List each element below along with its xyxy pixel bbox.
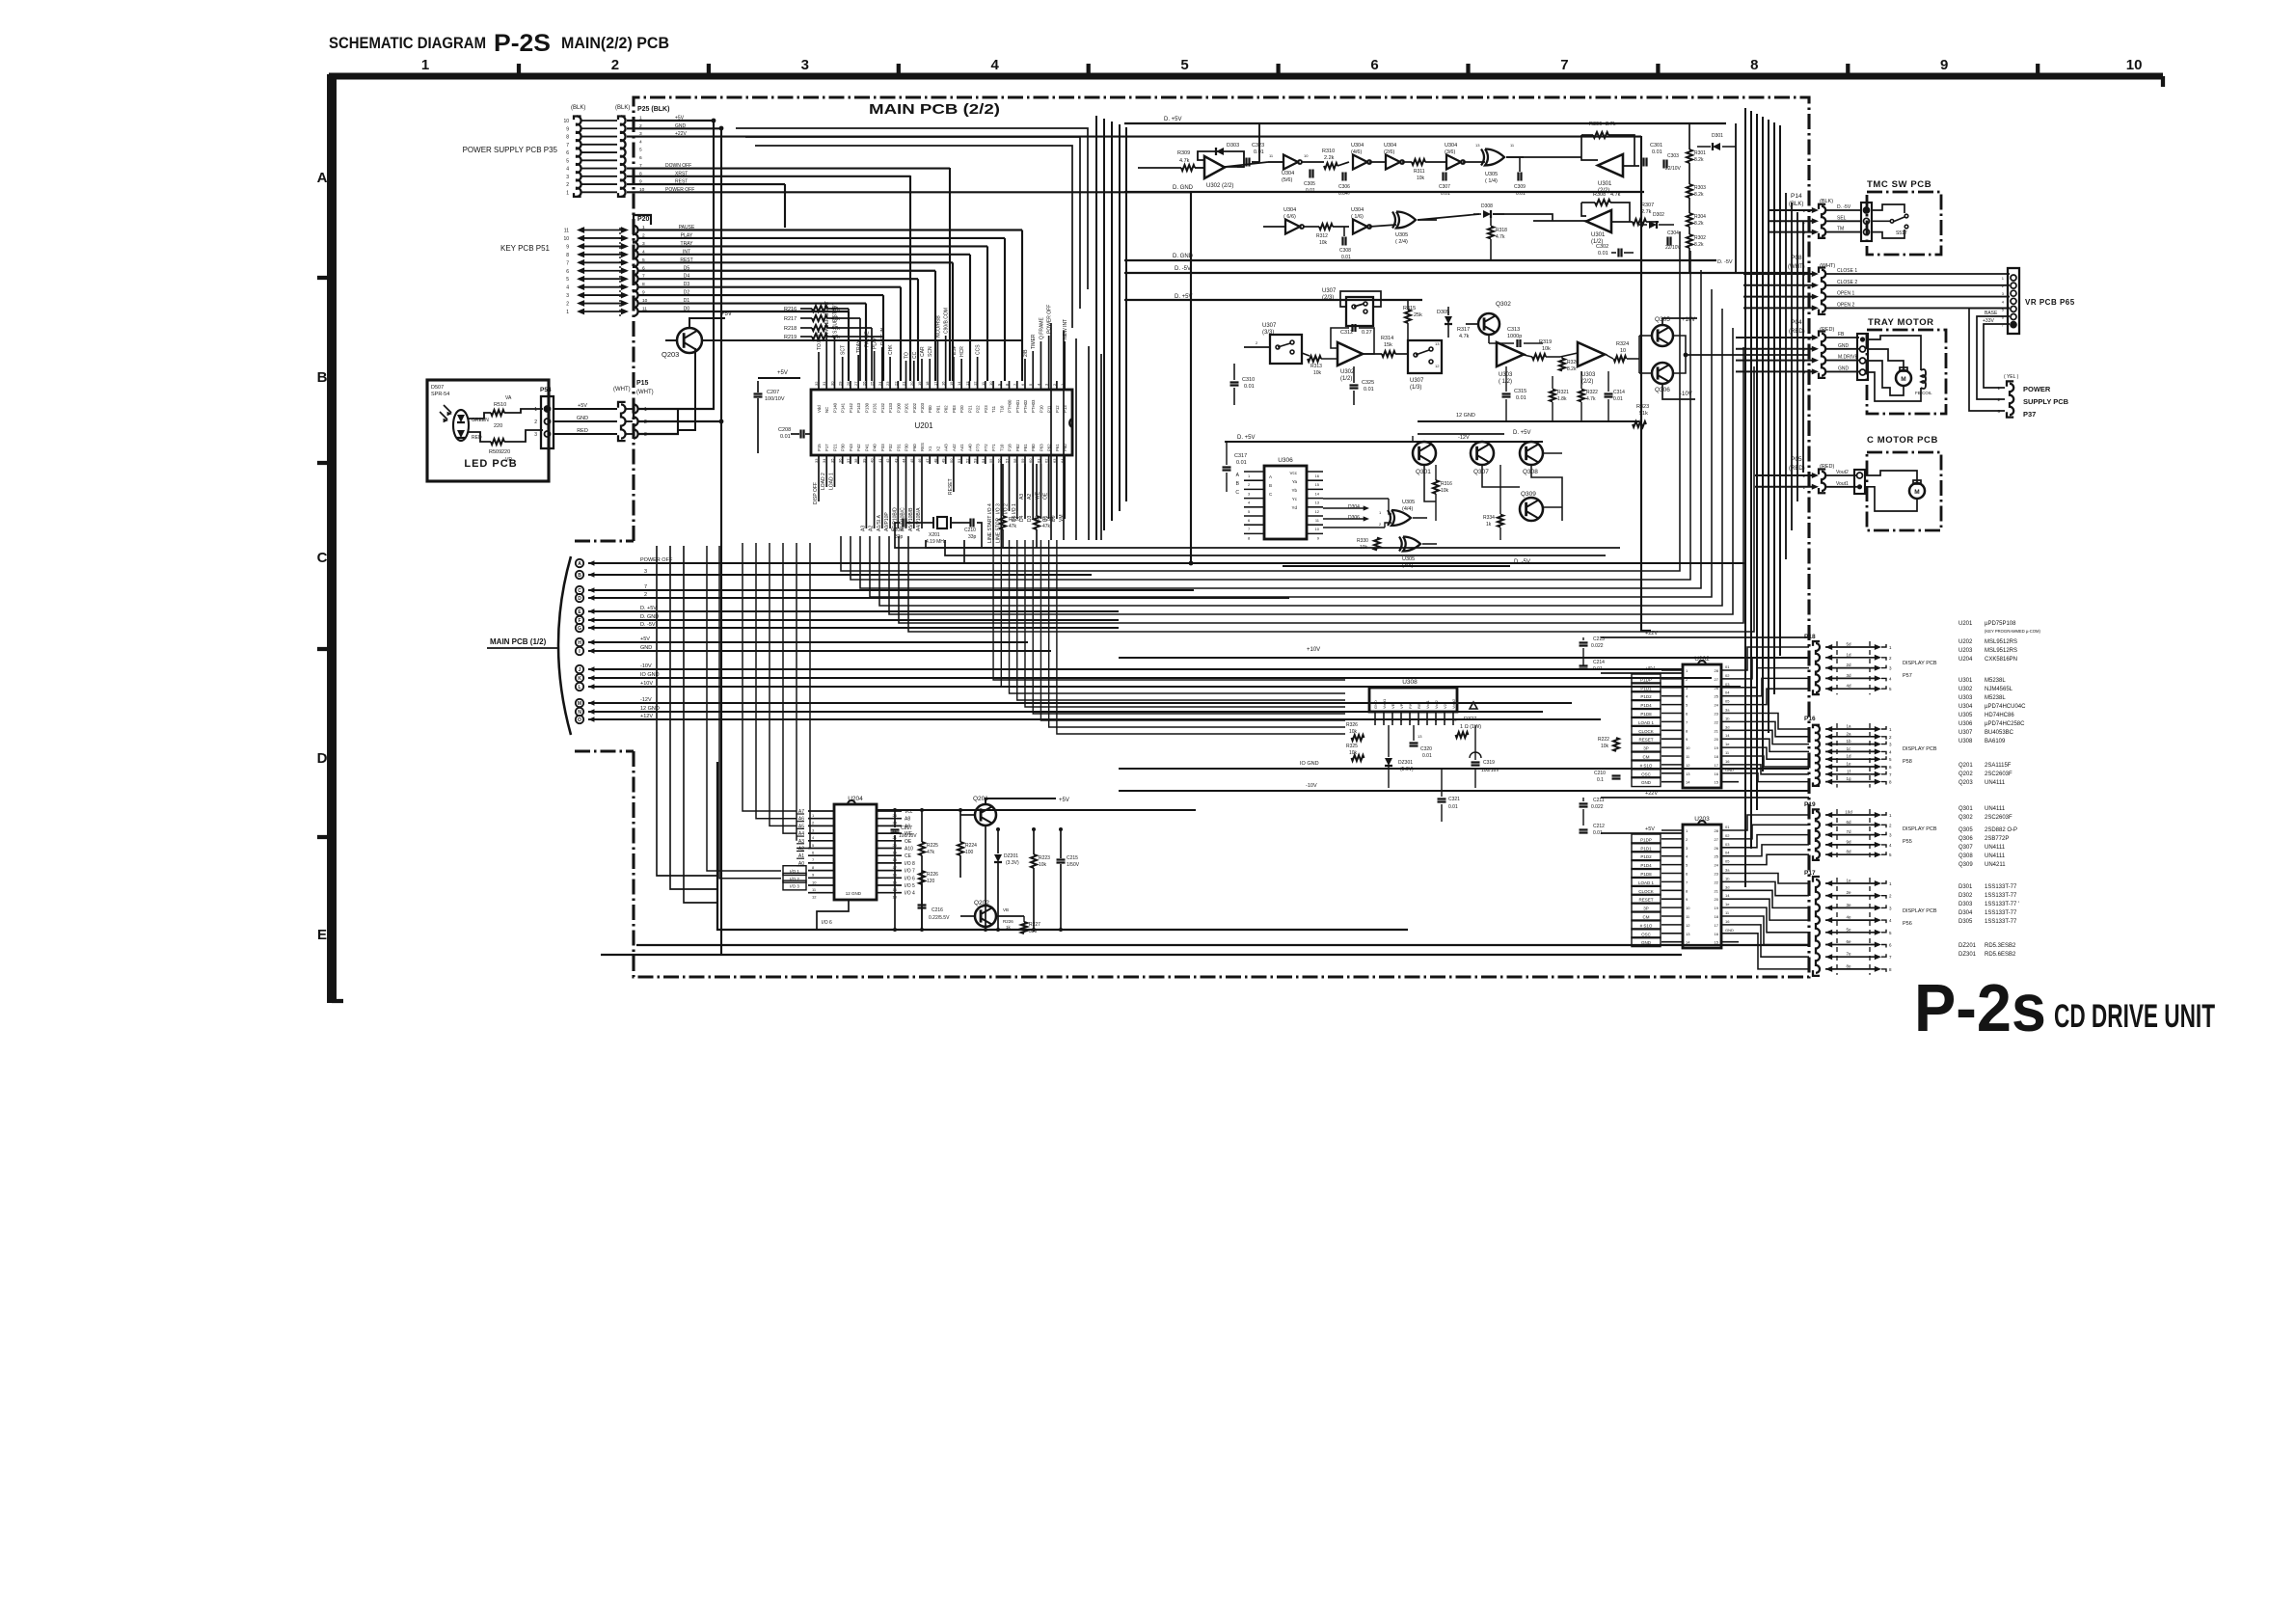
svg-text:1SS133T-77: 1SS133T-77	[1985, 919, 2017, 925]
svg-text:8: 8	[566, 135, 569, 141]
wire P17-3 3e	[1825, 905, 1832, 910]
svg-text:9: 9	[566, 126, 569, 132]
svg-text:P1D1: P1D1	[1640, 686, 1652, 690]
wire P16-1 1a	[1825, 726, 1832, 732]
svg-text:32: 32	[814, 381, 819, 386]
svg-text:1b: 1b	[1846, 739, 1851, 744]
wires U203 to P19 P17	[1739, 815, 1809, 830]
svg-text:(5.6V): (5.6V)	[1400, 767, 1414, 772]
capacitor C210 33p	[969, 519, 971, 528]
transistor Q201	[975, 804, 996, 826]
resistor R302 8.2k	[1687, 234, 1692, 248]
svg-text:10: 10	[563, 119, 569, 124]
svg-text:P1DP: P1DP	[1640, 837, 1652, 842]
svg-text:0.022: 0.022	[1591, 804, 1604, 810]
svg-text:10: 10	[1686, 745, 1690, 750]
resistor R226 120	[919, 871, 925, 884]
svg-text:24: 24	[878, 381, 882, 386]
svg-text:0.01: 0.01	[1244, 384, 1255, 390]
svg-text:D. -5V: D. -5V	[1514, 559, 1530, 565]
svg-text:Q302: Q302	[1958, 815, 1973, 821]
svg-text:R307: R307	[1641, 203, 1654, 208]
svg-text:42: 42	[885, 458, 890, 463]
svg-text:T11: T11	[991, 405, 996, 413]
svg-text:P80: P80	[1031, 444, 1036, 451]
resistor R318 4.7k	[1488, 227, 1494, 239]
svg-text:U307: U307	[1262, 323, 1277, 329]
svg-text:45: 45	[909, 458, 914, 463]
svg-text:R324: R324	[1616, 341, 1629, 347]
svg-text:UN4111: UN4111	[1985, 845, 2006, 851]
node K (IO GND)	[576, 674, 583, 682]
svg-text:17: 17	[1715, 763, 1719, 768]
wire U302 output to inverter chain	[1225, 162, 1268, 167]
svg-text:7e: 7e	[1846, 952, 1851, 957]
svg-text:P40: P40	[873, 444, 878, 451]
svg-text:33: 33	[814, 458, 819, 463]
svg-text:36: 36	[838, 458, 843, 463]
capacitor C303 22/10V	[1662, 160, 1664, 169]
svg-text:27: 27	[853, 381, 858, 386]
svg-text:U306: U306	[1958, 721, 1973, 727]
svg-text:GND: GND	[640, 645, 652, 651]
svg-text:27: 27	[1715, 677, 1719, 682]
svg-text:M5238L: M5238L	[1985, 678, 2006, 684]
svg-text:RED: RED	[577, 428, 588, 434]
svg-text:C314: C314	[1613, 390, 1625, 395]
svg-text:P101: P101	[905, 402, 909, 413]
svg-text:P15: P15	[817, 444, 822, 451]
svg-text:Vcc1: Vcc1	[1425, 699, 1430, 709]
svg-text:20: 20	[1715, 897, 1719, 902]
svg-text:PTH01: PTH01	[1015, 399, 1020, 413]
svg-text:1b: 1b	[1725, 876, 1730, 880]
c motor wires	[1865, 471, 1917, 482]
svg-text:12: 12	[1435, 364, 1440, 368]
svg-text:25k: 25k	[1414, 312, 1422, 318]
wire P17-8 8e	[1825, 966, 1832, 972]
svg-text:U304: U304	[1445, 143, 1457, 149]
svg-text:B: B	[317, 369, 328, 386]
svg-text:3: 3	[534, 432, 537, 438]
svg-text:MSL9512RS: MSL9512RS	[1985, 639, 2017, 645]
svg-text:CAR: CAR	[920, 346, 926, 357]
svg-text:CLOSE 1: CLOSE 1	[1837, 268, 1857, 274]
node D (2)	[576, 594, 583, 602]
svg-text:(3.3V): (3.3V)	[1006, 860, 1019, 866]
svg-text:OE: OE	[905, 839, 912, 845]
U201 top signal wires and rotated labels	[818, 352, 820, 381]
svg-text:U307: U307	[1958, 730, 1973, 736]
svg-text:P102: P102	[912, 402, 917, 413]
svg-text:I/O 3: I/O 3	[790, 883, 799, 888]
svg-text:0.01: 0.01	[1598, 251, 1608, 257]
svg-text:19: 19	[1715, 745, 1719, 750]
svg-text:NC: NC	[824, 407, 829, 413]
svg-text:U307: U307	[1410, 378, 1424, 384]
svg-text:RESET: RESET	[948, 478, 954, 495]
wire P18-1 5d	[1825, 644, 1832, 650]
left frame bar with row letters A-E	[327, 74, 337, 1003]
svg-text:RESET: RESET	[1638, 898, 1653, 903]
svg-text:12 GND: 12 GND	[846, 891, 862, 896]
svg-text:T10: T10	[999, 405, 1004, 413]
inverter U304 (6/6)	[1285, 220, 1300, 234]
transistor Q307	[1471, 442, 1494, 465]
transistor Q203	[677, 328, 702, 353]
svg-text:13: 13	[1475, 143, 1480, 148]
svg-text:( 6/6): ( 6/6)	[1283, 214, 1296, 220]
svg-text:P103: P103	[920, 402, 925, 413]
wire P16-6 1e	[1825, 764, 1832, 770]
svg-text:7: 7	[1560, 57, 1568, 73]
svg-text:6: 6	[566, 269, 569, 275]
svg-text:61: 61	[1036, 458, 1040, 463]
svg-text:U201: U201	[1958, 621, 1973, 627]
svg-text:D. -5V: D. -5V	[1175, 266, 1191, 272]
svg-text:18: 18	[925, 381, 930, 386]
svg-text:47k: 47k	[831, 335, 840, 340]
svg-text:D. +5V: D. +5V	[1164, 117, 1182, 122]
svg-text:14: 14	[957, 381, 961, 386]
svg-text:P21: P21	[832, 444, 837, 451]
svg-text:D: D	[578, 596, 581, 602]
svg-text:1.8k: 1.8k	[1557, 396, 1567, 402]
svg-text:C304: C304	[1667, 230, 1679, 236]
svg-text:28: 28	[846, 381, 851, 386]
svg-text:4.19 MHz: 4.19 MHz	[926, 539, 947, 545]
capacitor C307 0.01	[1442, 173, 1444, 181]
svg-text:Q301: Q301	[1416, 469, 1431, 475]
svg-text:0.1: 0.1	[1597, 777, 1604, 783]
svg-text:ESP: ESP	[952, 344, 958, 355]
svg-text:2e: 2e	[1846, 890, 1851, 895]
svg-text:2: 2	[644, 592, 647, 598]
right network frame wires	[1688, 123, 1690, 149]
svg-text:A43: A43	[944, 444, 949, 451]
svg-text:(RED): (RED)	[1789, 329, 1805, 335]
resistor R304 8.2k	[1687, 213, 1692, 227]
op-amp U301 (2/2) reversed	[1598, 154, 1623, 176]
svg-text:U204: U204	[848, 796, 863, 802]
svg-text:C212: C212	[1593, 824, 1605, 829]
svg-text:6d: 6d	[1846, 820, 1851, 825]
svg-text:K: K	[578, 676, 581, 682]
svg-text:GND: GND	[1838, 365, 1850, 371]
svg-text:R220: R220	[1009, 517, 1020, 523]
svg-text:0.01: 0.01	[1364, 387, 1374, 392]
svg-text:8: 8	[566, 253, 569, 258]
svg-text:5d: 5d	[1846, 642, 1851, 647]
svg-text:Q308: Q308	[1523, 469, 1538, 475]
svg-text:R308: R308	[1593, 192, 1606, 198]
svg-text:P1D2: P1D2	[1640, 854, 1652, 859]
svg-text:LOAD 1: LOAD 1	[828, 473, 834, 490]
svg-text:P15: P15	[636, 380, 649, 387]
svg-text:PLAY: PLAY	[873, 337, 878, 349]
svg-text:21: 21	[1715, 728, 1719, 733]
svg-text:Vout2: Vout2	[1836, 470, 1849, 475]
svg-text:1k: 1k	[1486, 522, 1492, 528]
svg-text:C305: C305	[1304, 181, 1315, 187]
svg-text:C208: C208	[778, 427, 791, 433]
svg-text:Vcc2: Vcc2	[1434, 699, 1439, 709]
svg-text:3: 3	[644, 569, 647, 575]
svg-text:10: 10	[563, 236, 569, 242]
svg-text:26: 26	[861, 381, 866, 386]
svg-text:P57: P57	[1903, 673, 1912, 679]
op-amp U303 (2/2)	[1578, 342, 1605, 366]
svg-text:CLOCK: CLOCK	[1638, 889, 1654, 894]
upper nested bus rectangles	[736, 128, 1088, 289]
svg-text:C213: C213	[1593, 636, 1605, 642]
resistor R316 10k	[1433, 480, 1439, 494]
svg-text:( 2/4): ( 2/4)	[1395, 239, 1408, 245]
transistor Q308	[1520, 442, 1543, 465]
svg-text:U201: U201	[914, 421, 933, 430]
svg-text:C323: C323	[1252, 143, 1264, 149]
svg-text:1e: 1e	[1725, 902, 1730, 907]
svg-text:R314: R314	[1381, 336, 1393, 341]
svg-text:NJM4565L: NJM4565L	[1985, 687, 2013, 692]
wire P15-1 +5V	[638, 408, 678, 410]
svg-text:HCR: HCR	[959, 346, 965, 357]
svg-text:RESET: RESET	[1638, 738, 1653, 743]
svg-text:SCT: SCT	[841, 345, 847, 355]
svg-text:3d: 3d	[1846, 673, 1851, 678]
svg-text:+5V: +5V	[1645, 826, 1655, 832]
svg-text:VP: VP	[1399, 703, 1404, 709]
wires LED to P54	[469, 413, 491, 419]
inverter U304 (5/6)	[1283, 155, 1298, 170]
wire U301(1/2) output left	[1533, 220, 1586, 222]
svg-text:0.22/5.5V: 0.22/5.5V	[929, 915, 950, 921]
node M (-12V)	[576, 699, 583, 707]
inverter U304 (4/6)	[1353, 155, 1367, 170]
svg-text:P1D1: P1D1	[1640, 846, 1652, 851]
svg-text:R304: R304	[1694, 214, 1706, 220]
svg-text:3d: 3d	[1725, 884, 1729, 889]
svg-text:X2: X2	[935, 446, 940, 451]
node H (+5V)	[576, 638, 583, 646]
resistor R320 8.2k	[1559, 359, 1565, 371]
svg-text:2.7k: 2.7k	[1606, 122, 1616, 127]
svg-text:7: 7	[566, 143, 569, 149]
svg-text:20: 20	[909, 381, 914, 386]
svg-text:9: 9	[566, 244, 569, 250]
svg-text:C313: C313	[1507, 327, 1520, 333]
svg-text:4d: 4d	[1846, 684, 1851, 689]
svg-text:( 1/4): ( 1/4)	[1485, 178, 1498, 184]
svg-text:P33: P33	[880, 444, 885, 451]
svg-text:2d: 2d	[1846, 663, 1851, 667]
wire XRST drop	[909, 176, 911, 381]
svg-text:DZ201: DZ201	[1004, 853, 1018, 859]
svg-text:1e: 1e	[1846, 879, 1851, 883]
svg-text:P21: P21	[967, 405, 972, 413]
svg-text:40: 40	[870, 458, 875, 463]
svg-text:R318: R318	[1496, 228, 1507, 233]
svg-text:28: 28	[1715, 668, 1719, 673]
svg-text:PTH00: PTH00	[1008, 399, 1013, 413]
svg-text:U301: U301	[1598, 181, 1612, 187]
svg-text:47k: 47k	[1009, 524, 1017, 529]
svg-text:R225: R225	[927, 843, 938, 849]
svg-text:59: 59	[1020, 458, 1025, 463]
svg-text:D. -5V: D. -5V	[1717, 259, 1733, 265]
svg-text:9: 9	[1940, 57, 1948, 73]
svg-text:P56: P56	[1903, 921, 1912, 927]
xor gate U305 (2/4)	[1396, 212, 1416, 229]
svg-text:0.01: 0.01	[1422, 753, 1432, 759]
address bus staircase into U204	[743, 543, 797, 811]
svg-text:TO: TO	[905, 352, 910, 359]
svg-text:Q309: Q309	[1958, 862, 1973, 868]
svg-text:0.01: 0.01	[1441, 191, 1450, 197]
svg-text:R219: R219	[784, 335, 797, 340]
svg-text:P132: P132	[880, 402, 885, 413]
svg-text:14: 14	[1725, 893, 1730, 898]
center staircase bus wires	[841, 231, 1680, 571]
svg-text:U305: U305	[1395, 232, 1408, 238]
svg-text:46: 46	[917, 458, 922, 463]
node G (D. -5V)	[576, 624, 583, 632]
svg-text:Q202: Q202	[1958, 771, 1973, 777]
svg-text:A41: A41	[959, 444, 964, 451]
svg-text:U301: U301	[1958, 678, 1973, 684]
svg-text:C207: C207	[767, 390, 779, 395]
svg-text:I/O 3: I/O 3	[995, 503, 1001, 514]
wire P16-8 1g	[1825, 779, 1832, 785]
svg-text:1a: 1a	[1846, 724, 1851, 729]
bus loop wires lower-left	[657, 546, 717, 876]
svg-text:41: 41	[878, 458, 882, 463]
svg-text:4: 4	[991, 57, 1000, 73]
wire P16-7 1f	[1825, 771, 1832, 777]
svg-text:0.01: 0.01	[1652, 149, 1662, 155]
svg-text:GND: GND	[1725, 768, 1734, 772]
svg-text:HD74HC86: HD74HC86	[1985, 713, 2014, 718]
U201 top pins	[818, 381, 820, 390]
wire P19-5 8d	[1825, 852, 1832, 857]
svg-text:21: 21	[1715, 888, 1719, 893]
svg-text:6: 6	[639, 155, 642, 161]
svg-text:C214: C214	[1593, 660, 1605, 665]
Q301 Q307 Q308 wires	[1424, 465, 1436, 501]
svg-text:3e: 3e	[1846, 903, 1851, 907]
svg-text:12: 12	[812, 895, 817, 900]
svg-text:10: 10	[1304, 153, 1309, 158]
svg-text:U203: U203	[1694, 816, 1710, 823]
svg-text:8.2k: 8.2k	[1694, 242, 1704, 248]
svg-text:(WHT): (WHT)	[613, 387, 631, 392]
svg-text:(1/3): (1/3)	[1410, 385, 1421, 391]
resistor R311 10k	[1412, 159, 1425, 165]
svg-text:L: L	[578, 685, 581, 690]
svg-text:P61: P61	[1055, 444, 1060, 451]
svg-text:01: 01	[1725, 825, 1730, 829]
svg-text:# S1O: # S1O	[1640, 923, 1653, 928]
svg-text:A2: A2	[869, 526, 875, 531]
svg-text:D308: D308	[1481, 203, 1493, 209]
svg-text:29: 29	[838, 381, 843, 386]
resistor R510 220	[491, 410, 504, 416]
capacitor C215 1/50V	[1057, 858, 1066, 860]
svg-text:1SS133T-77: 1SS133T-77	[1985, 893, 2017, 899]
svg-text:U302: U302	[1958, 687, 1973, 692]
svg-text:P1D8: P1D8	[1640, 712, 1652, 717]
svg-text:µPD74HC258C: µPD74HC258C	[1985, 721, 2025, 727]
resistor R509 220	[491, 439, 504, 445]
wire +5V drop	[678, 121, 714, 409]
tray motor connector strip	[1857, 334, 1868, 380]
svg-text:P58: P58	[1903, 759, 1912, 765]
svg-text:14: 14	[1686, 780, 1690, 785]
svg-text:C312: C312	[1340, 330, 1353, 336]
svg-text:P133: P133	[888, 402, 893, 413]
svg-text:13: 13	[1435, 341, 1440, 346]
svg-text:R325: R325	[1346, 744, 1358, 749]
svg-text:3P: 3P	[1643, 746, 1649, 751]
svg-text:P54: P54	[540, 387, 552, 393]
svg-text:FB: FB	[1838, 332, 1845, 338]
svg-text:27: 27	[1715, 837, 1719, 842]
svg-text:0.022: 0.022	[1591, 643, 1604, 649]
svg-text:13: 13	[1686, 932, 1690, 936]
svg-text:S517: S517	[1896, 230, 1907, 236]
svg-text:1c: 1c	[1847, 746, 1852, 751]
svg-text:5e: 5e	[1846, 927, 1851, 932]
svg-text:P1D8: P1D8	[1640, 872, 1652, 877]
svg-text:( 1/2): ( 1/2)	[1499, 379, 1512, 385]
svg-text:CC: CC	[912, 351, 918, 359]
svg-text:R302: R302	[1694, 235, 1706, 241]
svg-text:10k: 10k	[1417, 176, 1425, 181]
svg-text:LINE STOP: LINE STOP	[995, 517, 1001, 543]
capacitor C308 0.01	[1341, 237, 1343, 246]
svg-text:03: 03	[1725, 842, 1730, 847]
svg-text:14: 14	[1725, 733, 1730, 738]
svg-text:U202: U202	[1694, 656, 1710, 663]
svg-text:P140: P140	[832, 402, 837, 413]
svg-text:2: 2	[534, 420, 537, 425]
svg-text:D302: D302	[1958, 893, 1973, 899]
svg-text:+5V: +5V	[721, 311, 732, 317]
svg-text:1d: 1d	[1846, 652, 1851, 657]
svg-text:CHK: CHK	[888, 344, 894, 355]
svg-text:5: 5	[566, 158, 569, 164]
svg-text:U308: U308	[1402, 679, 1418, 686]
svg-text:13: 13	[1315, 501, 1320, 505]
svg-text:49: 49	[941, 458, 946, 463]
wire P16-4 1c	[1825, 748, 1832, 754]
svg-text:Vout1: Vout1	[1382, 698, 1387, 709]
svg-text:VR: VR	[505, 457, 512, 463]
svg-text:CM: CM	[1643, 914, 1650, 919]
svg-text:0.01: 0.01	[1236, 460, 1247, 466]
svg-text:R226: R226	[1003, 919, 1013, 924]
svg-text:OE: OE	[1043, 492, 1049, 500]
svg-text:R323: R323	[1636, 404, 1649, 410]
svg-text:GND: GND	[1641, 780, 1652, 785]
svg-text:3: 3	[801, 57, 809, 73]
wire GND drop	[720, 128, 722, 955]
svg-text:CE: CE	[905, 853, 912, 859]
svg-text:+5V: +5V	[1059, 798, 1069, 803]
svg-text:LOAD 1: LOAD 1	[1638, 720, 1655, 725]
svg-text:P03: P03	[952, 405, 957, 413]
svg-text:+5V: +5V	[777, 370, 788, 376]
